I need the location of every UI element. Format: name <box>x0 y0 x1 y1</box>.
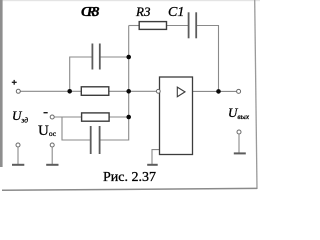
wire: R3 to C1 <box>167 25 189 27</box>
wire: upper cap right <box>100 56 129 58</box>
resistor R2 (lower input) <box>82 113 110 121</box>
label CR3 (overlapped) <box>81 5 96 21</box>
caption Ris. 2.37 <box>103 170 156 186</box>
node: input junction <box>67 89 72 94</box>
wire: + input to left junction <box>20 90 70 92</box>
ground terminal below Uoc <box>50 143 54 147</box>
wire: op-amp output to terminal <box>193 90 237 92</box>
node: bus middle junction <box>126 89 131 94</box>
op-amp triangle symbol <box>177 87 185 97</box>
wire: upper cap left vertical <box>70 57 92 91</box>
label Uvyh <box>228 105 249 121</box>
label Uoc <box>38 123 56 140</box>
node: output junction <box>216 89 221 94</box>
frame right edge <box>255 0 257 189</box>
resistor R3 (feedback) <box>139 22 166 30</box>
capacitor C1 (feedback) plates <box>188 12 190 38</box>
op-amp U1 body <box>160 77 193 155</box>
ground terminal right (below Uvyh) <box>237 130 241 134</box>
terminal: + input circle <box>16 89 20 93</box>
node: bus top junction <box>126 55 131 60</box>
terminal: Uoc input circle <box>50 115 54 119</box>
wire: bus to R3 <box>129 25 139 27</box>
node: bus lower junction <box>126 115 131 120</box>
wire: left junction to R1 <box>70 90 82 92</box>
wire: bus to op-amp input bubble <box>129 90 157 92</box>
op-amp inverting input bubble <box>156 89 160 93</box>
wire: lower cap right to junction <box>100 117 129 140</box>
wire: lower cap left tee <box>62 117 90 140</box>
wire: R2 to lower junction <box>109 116 129 118</box>
frame left edge <box>0 0 3 167</box>
capacitor C3 (lower input) plates <box>90 126 92 154</box>
wire: vertical bus <box>128 26 130 118</box>
terminal: output circle <box>237 89 241 93</box>
ground terminal below Uzd <box>16 143 20 147</box>
capacitor C2 (upper input) plates <box>91 44 93 70</box>
label C1 <box>168 5 184 21</box>
frame top edge <box>0 0 260 1</box>
frame bottom edge <box>2 188 257 190</box>
wire: op-amp noninverting input to ground <box>152 150 160 165</box>
resistor R1 (upper input) <box>81 87 109 96</box>
wire: Uoc input to R2 <box>54 116 82 118</box>
wire: C1 to feedback corner and down to output node <box>197 26 219 92</box>
label - (input polarity) <box>44 112 48 114</box>
label Uzd <box>12 108 28 125</box>
label R3 <box>136 4 150 20</box>
label + (input polarity) <box>12 80 17 85</box>
ground below op-amp <box>147 164 158 166</box>
wire: R1 to bus <box>109 90 130 92</box>
